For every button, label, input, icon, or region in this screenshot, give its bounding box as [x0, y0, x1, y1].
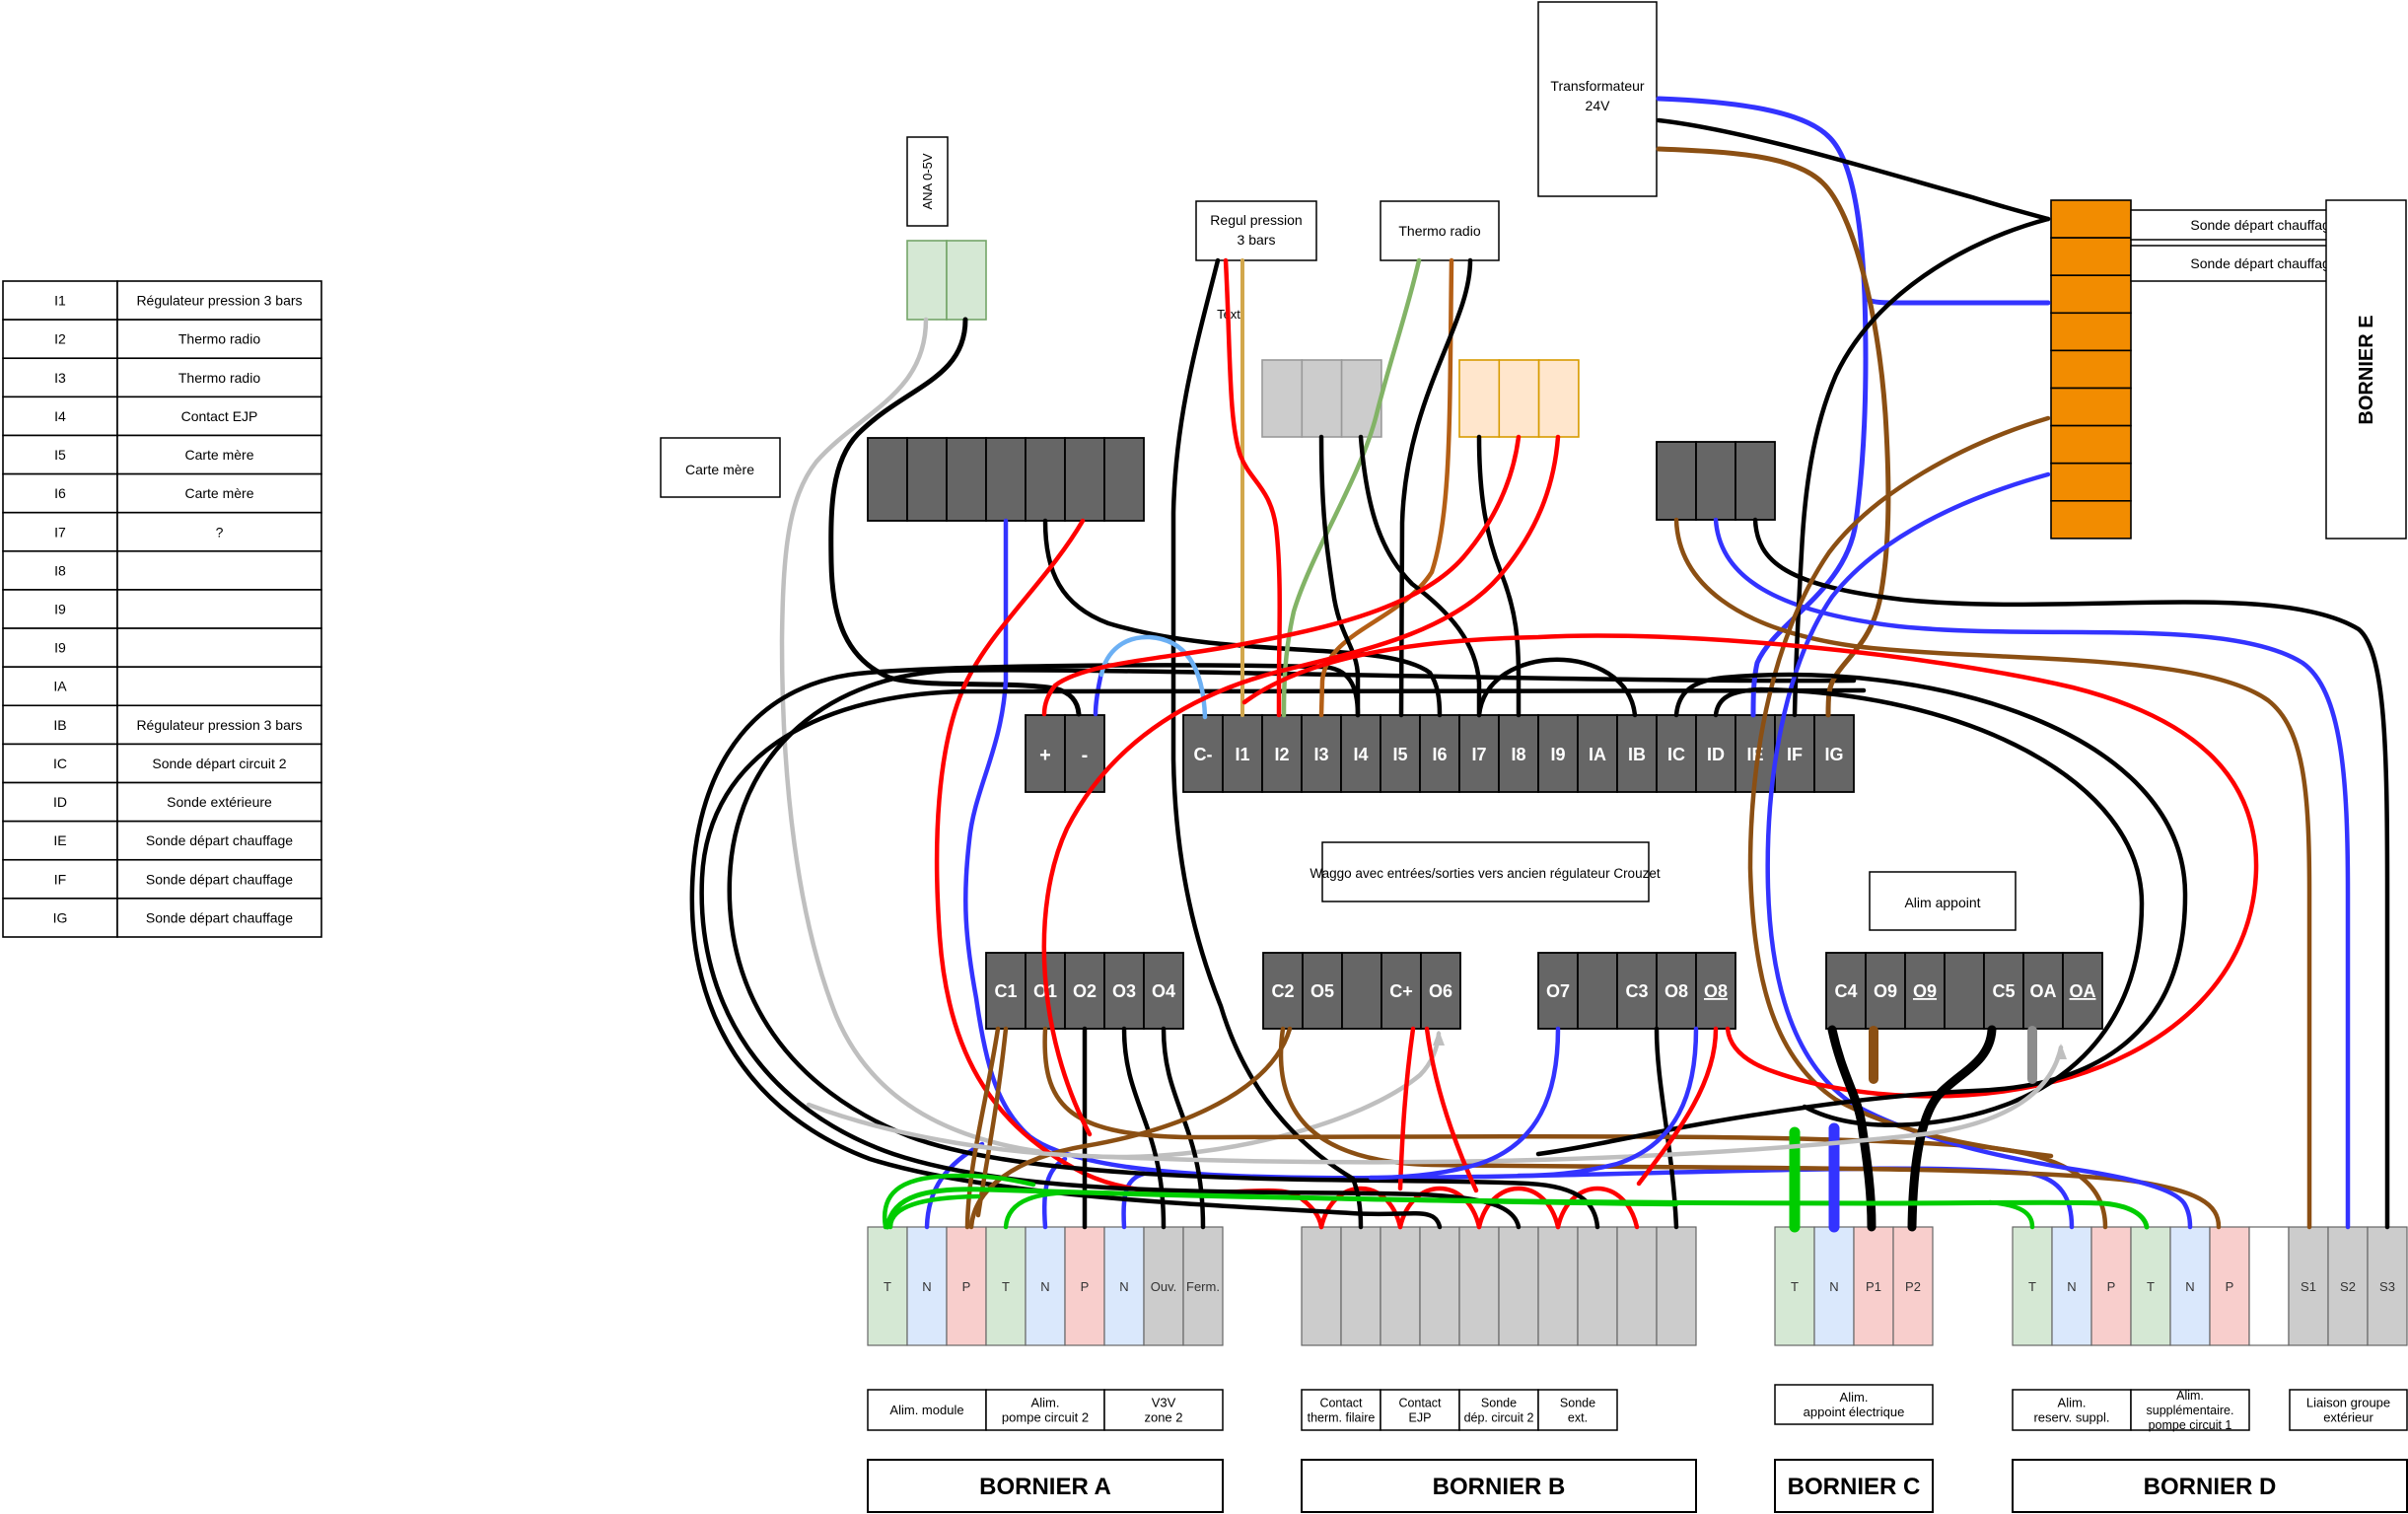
svg-text:I5: I5 — [54, 447, 66, 463]
wire blue hook to minus — [1096, 673, 1101, 714]
svg-text:IA: IA — [53, 679, 67, 694]
connector carte-mere 7-cell dark — [868, 438, 1144, 521]
wire black big arc ID right — [1716, 689, 2142, 1125]
svg-text:T: T — [2147, 1279, 2155, 1294]
svg-text:Sonde départ chauffage: Sonde départ chauffage — [146, 909, 293, 925]
svg-text:Alim.: Alim. — [1031, 1396, 1060, 1410]
svg-text:3 bars: 3 bars — [1238, 232, 1276, 248]
svg-text:BORNIER C: BORNIER C — [1788, 1474, 1921, 1500]
svg-text:Sonde départ chauffage: Sonde départ chauffage — [146, 832, 293, 848]
wire goldenrod regul to I1 — [1240, 260, 1244, 715]
label Alim module — [868, 1390, 986, 1430]
wire blue trafo to IE — [1659, 99, 1866, 715]
connector right 3-cell dark — [1657, 442, 1775, 520]
svg-text:zone 2: zone 2 — [1144, 1410, 1182, 1425]
wire red carte-mere sweep to scallops — [937, 521, 1321, 1227]
svg-text:C1: C1 — [994, 981, 1017, 1001]
wire black gray3cell c2 to I4 — [1321, 437, 1358, 715]
wire thick black C5 to P2 — [1912, 1030, 1992, 1227]
wire thick black C4 to P1 — [1832, 1030, 1872, 1227]
svg-text:N: N — [1040, 1279, 1049, 1294]
svg-text:I8: I8 — [1511, 745, 1525, 764]
svg-text:pompe circuit 1: pompe circuit 1 — [2149, 1418, 2232, 1432]
svg-text:O7: O7 — [1546, 981, 1570, 1001]
svg-text:Contact EJP: Contact EJP — [181, 408, 258, 424]
label Alim supplementaire pompe circuit 1 — [2131, 1389, 2249, 1432]
terminal strip Bornier D — [2013, 1227, 2407, 1345]
svg-text:Alim.: Alim. — [2058, 1396, 2087, 1410]
wire red O8 to scallop — [1639, 1029, 1716, 1184]
wire lightblue arc to C- — [1101, 637, 1205, 717]
svg-text:IB: IB — [1628, 745, 1646, 764]
connector outputs C2 O5 C+ O6 — [1263, 953, 1460, 1029]
wire black left arc to B2 — [692, 665, 1440, 1227]
svg-text:S2: S2 — [2340, 1279, 2356, 1294]
svg-text:IA: IA — [1589, 745, 1606, 764]
svg-text:Regul pression: Regul pression — [1210, 212, 1302, 228]
svg-text:Thermo radio: Thermo radio — [178, 370, 260, 386]
wire black ANA to minus — [831, 320, 1079, 714]
svg-text:P: P — [2226, 1279, 2234, 1294]
svg-text:EJP: EJP — [1409, 1411, 1432, 1425]
svg-text:Sonde départ chauffage: Sonde départ chauffage — [2190, 217, 2337, 233]
svg-text:O2: O2 — [1073, 981, 1097, 1001]
wire brown C2 strand to strip A P1 — [971, 1029, 1290, 1227]
wire brown 3cell to S1 — [1676, 520, 2309, 1227]
connector outputs C4 O9 O9 C5 OA OA — [1826, 953, 2102, 1029]
wire brown C1 to strip A P1 — [967, 1029, 998, 1227]
svg-text:IF: IF — [54, 871, 66, 887]
label Sonde depart chauffage 1 — [2131, 210, 2397, 240]
label BORNIER B — [1302, 1460, 1696, 1512]
wire black carte-mere to I6 — [1045, 521, 1440, 715]
connector peach 3-cell — [1459, 360, 1579, 437]
wire black thermo to I5 — [1401, 260, 1470, 715]
svg-text:IG: IG — [1824, 745, 1843, 764]
connector plus-minus block — [1026, 715, 1104, 792]
wire brown orange row6 crossing C4 — [1750, 418, 2051, 1156]
svg-text:Ferm.: Ferm. — [1186, 1279, 1220, 1294]
svg-text:Ouv.: Ouv. — [1151, 1279, 1177, 1294]
svg-text:I9: I9 — [54, 602, 66, 617]
svg-text:I3: I3 — [54, 370, 66, 386]
svg-text:I1: I1 — [54, 293, 66, 309]
wire black trafo to orange row1 — [1659, 120, 2048, 219]
wire black 3cell to S3 — [1755, 520, 2387, 1227]
svg-text:Sonde départ chauffage: Sonde départ chauffage — [146, 871, 293, 887]
svg-text:Alim appoint: Alim appoint — [1904, 895, 1980, 910]
wire blue carte-mere trunk to bornier D N1 — [965, 521, 2072, 1227]
svg-text:reserv. suppl.: reserv. suppl. — [2033, 1410, 2109, 1425]
label BORNIER E — [2326, 200, 2406, 539]
svg-text:OA: OA — [2030, 981, 2057, 1001]
wire ochre thermo to I3 — [1321, 260, 1452, 715]
stub blue bornier C N — [1829, 1128, 1840, 1227]
wire black gray3cell c3 to I7 — [1361, 437, 1479, 715]
svg-text:-: - — [1082, 745, 1089, 766]
terminal strip Bornier A — [868, 1227, 1223, 1345]
transformer 24V box — [1538, 2, 1657, 196]
svg-text:Carte mère: Carte mère — [184, 447, 253, 463]
label Carte mere — [661, 438, 780, 497]
label Regul pression 3 bars — [1196, 201, 1316, 260]
wire red regul to I2 — [1226, 260, 1280, 715]
label Alim reserv suppl — [2013, 1390, 2131, 1430]
svg-text:I2: I2 — [54, 331, 66, 347]
svg-text:Thermo radio: Thermo radio — [178, 331, 260, 347]
svg-text:appoint électrique: appoint électrique — [1804, 1405, 1905, 1419]
svg-text:V3V: V3V — [1152, 1396, 1176, 1410]
svg-text:O9: O9 — [1913, 981, 1937, 1001]
wire blue 3cell to S2 — [1716, 520, 2348, 1227]
wire red peach c2 to plus — [1044, 437, 1519, 714]
wire brown C2 bus to bornier D P2 — [1281, 1029, 2219, 1227]
label Waggo box — [1310, 842, 1660, 901]
svg-text:IF: IF — [1787, 745, 1803, 764]
svg-text:S1: S1 — [2301, 1279, 2316, 1294]
svg-text:C+: C+ — [1389, 981, 1413, 1001]
svg-text:C-: C- — [1194, 745, 1213, 764]
label Sonde depart chauffage 2 — [2131, 246, 2397, 281]
svg-text:I1: I1 — [1235, 745, 1249, 764]
svg-text:ext.: ext. — [1568, 1411, 1588, 1425]
wire red C+ a — [1400, 1029, 1413, 1189]
svg-text:BORNIER E: BORNIER E — [2356, 315, 2377, 424]
svg-text:pompe circuit 2: pompe circuit 2 — [1002, 1410, 1089, 1425]
label BORNIER D — [2013, 1460, 2407, 1512]
svg-text:IG: IG — [53, 909, 68, 925]
svg-text:IE: IE — [53, 832, 66, 848]
wire red scallop B3 — [1479, 1189, 1558, 1227]
svg-text:Régulateur pression 3 bars: Régulateur pression 3 bars — [136, 293, 302, 309]
svg-text:dép. circuit 2: dép. circuit 2 — [1464, 1411, 1534, 1425]
svg-text:OA: OA — [2070, 981, 2096, 1001]
svg-text:I8: I8 — [54, 562, 66, 578]
svg-text:Liaison groupe: Liaison groupe — [2306, 1396, 2390, 1410]
svg-text:I9: I9 — [1550, 745, 1565, 764]
svg-text:Carte mère: Carte mère — [685, 462, 754, 477]
wire green branch D T1 — [1990, 1202, 2032, 1227]
wire blue branch to orange row3 — [1865, 296, 2048, 303]
wire blue O8 down — [1519, 1029, 1696, 1176]
svg-text:N: N — [1119, 1279, 1128, 1294]
svg-text:I2: I2 — [1274, 745, 1289, 764]
label V3V zone 2 — [1104, 1390, 1223, 1430]
wire red C+ b — [1427, 1029, 1476, 1190]
svg-text:Sonde: Sonde — [1560, 1397, 1595, 1410]
svg-text:N: N — [2067, 1279, 2076, 1294]
svg-text:P: P — [1081, 1279, 1090, 1294]
svg-text:Alim.: Alim. — [1840, 1390, 1869, 1405]
wire red scallop B2 — [1400, 1189, 1479, 1227]
svg-text:C2: C2 — [1271, 981, 1294, 1001]
label Thermo radio — [1381, 201, 1499, 260]
svg-text:IC: IC — [53, 756, 67, 771]
stub green bornier C T — [1790, 1132, 1801, 1227]
wire blue branch strip A N3 — [1124, 1174, 1144, 1227]
wire gray long to OA arrow — [809, 1047, 2061, 1162]
svg-text:O3: O3 — [1112, 981, 1136, 1001]
wire black O3 to Ouv — [1124, 1029, 1164, 1227]
svg-text:Alim. module: Alim. module — [889, 1403, 963, 1417]
wire black C3 to B black cell — [1657, 1029, 1676, 1227]
svg-text:+: + — [1039, 745, 1051, 766]
arrowhead gray at OA — [2055, 1044, 2067, 1059]
wire black left arc to B5 — [702, 690, 1864, 1227]
wire red scallop B1 — [1321, 1189, 1400, 1227]
label Alim appoint — [1870, 872, 2016, 930]
svg-text:I4: I4 — [1353, 745, 1368, 764]
svg-text:O8: O8 — [1704, 981, 1728, 1001]
svg-text:N: N — [1829, 1279, 1838, 1294]
svg-text:ANA 0-5V: ANA 0-5V — [920, 153, 935, 209]
svg-text:Carte mère: Carte mère — [184, 485, 253, 501]
svg-text:C3: C3 — [1625, 981, 1648, 1001]
svg-text:P1: P1 — [1866, 1279, 1881, 1294]
connector outputs C1 O1-O4 — [986, 953, 1183, 1029]
svg-text:P2: P2 — [1905, 1279, 1921, 1294]
svg-text:extérieur: extérieur — [2323, 1410, 2373, 1425]
wire black peach c1 to I8 — [1479, 437, 1519, 715]
label Sonde dep circuit 2 — [1459, 1390, 1538, 1430]
svg-text:BORNIER A: BORNIER A — [979, 1474, 1111, 1500]
wire green curl left1 — [885, 1176, 1033, 1227]
svg-text:I5: I5 — [1392, 745, 1407, 764]
svg-text:I7: I7 — [54, 524, 66, 540]
legend table inputs I1-IG — [3, 281, 321, 937]
svg-text:ID: ID — [1707, 745, 1725, 764]
wire blue branch strip A N2 — [1044, 1159, 1065, 1227]
wire sage green thermo to I2 — [1284, 260, 1419, 715]
wire black orange row1 to IF — [1795, 219, 2048, 715]
wire red loop right to O8 — [1244, 635, 2256, 1096]
wire green curl left2 — [890, 1196, 978, 1227]
svg-text:P: P — [962, 1279, 971, 1294]
svg-text:supplémentaire.: supplémentaire. — [2147, 1404, 2234, 1417]
svg-text:I6: I6 — [54, 485, 66, 501]
svg-text:I3: I3 — [1313, 745, 1328, 764]
svg-text:N: N — [2185, 1279, 2194, 1294]
svg-text:T: T — [1791, 1279, 1799, 1294]
wire black O2 to P2 — [1083, 1029, 1088, 1227]
svg-text:C4: C4 — [1834, 981, 1857, 1001]
wire black O4 to Ferm — [1164, 1029, 1203, 1227]
svg-text:O9: O9 — [1874, 981, 1897, 1001]
stub brown under O9 — [1869, 1031, 1878, 1079]
svg-text:T: T — [2028, 1279, 2036, 1294]
svg-text:Sonde départ circuit 2: Sonde départ circuit 2 — [152, 756, 286, 771]
svg-text:Contact: Contact — [1398, 1397, 1442, 1410]
svg-text:I9: I9 — [54, 640, 66, 656]
wire blue O7 down — [1371, 1029, 1558, 1178]
svg-text:therm. filaire: therm. filaire — [1308, 1411, 1376, 1425]
label Contact EJP — [1381, 1390, 1459, 1430]
wire brown O1 bus to bornier D P1 — [1045, 1029, 2105, 1227]
svg-text:T: T — [884, 1279, 891, 1294]
connector ANA green 2-cell — [907, 241, 986, 320]
svg-text:Alim.: Alim. — [2176, 1389, 2204, 1403]
wire red peach c3 left — [1044, 437, 1558, 1134]
wire black big arc IC right — [1538, 675, 2185, 1154]
wire blue branch strip A N1 — [927, 1144, 982, 1227]
svg-text:O8: O8 — [1664, 981, 1688, 1001]
terminal strip Bornier B — [1302, 1227, 1696, 1345]
svg-text:Sonde: Sonde — [1481, 1397, 1517, 1410]
svg-text:Waggo avec entrées/sorties ver: Waggo avec entrées/sorties vers ancien r… — [1310, 866, 1660, 881]
connector Waggo input row C- I1..IG — [1183, 715, 1854, 792]
svg-text:I4: I4 — [54, 408, 66, 424]
svg-text:O5: O5 — [1310, 981, 1334, 1001]
wire blue orange row8 crossing C4 to D N2 — [1768, 474, 2190, 1227]
svg-text:ID: ID — [53, 794, 67, 810]
svg-text:IB: IB — [53, 717, 66, 733]
label Contact therm filaire — [1302, 1390, 1381, 1430]
svg-text:O4: O4 — [1152, 981, 1175, 1001]
wire green bus2 — [1006, 1192, 1676, 1227]
svg-text:I6: I6 — [1432, 745, 1447, 764]
svg-text:?: ? — [216, 524, 224, 540]
svg-text:Thermo radio: Thermo radio — [1398, 223, 1480, 239]
svg-text:Contact: Contact — [1319, 1397, 1363, 1410]
svg-text:IC: IC — [1667, 745, 1685, 764]
svg-text:O6: O6 — [1429, 981, 1452, 1001]
svg-text:P: P — [2107, 1279, 2116, 1294]
arrowhead gray at O6 — [1433, 1030, 1445, 1045]
svg-text:T: T — [1002, 1279, 1010, 1294]
label Text — [1217, 307, 1240, 322]
label Alim appoint electrique — [1775, 1385, 1933, 1424]
terminal strip Bornier C — [1775, 1227, 1933, 1345]
svg-text:Transformateur: Transformateur — [1550, 78, 1645, 94]
wire brown C1b parallel — [978, 1029, 1006, 1215]
wire black horizontal arc to B7 — [730, 670, 1854, 1227]
connector outputs O7 C3 O8 O8 — [1538, 953, 1735, 1029]
wire red scallop B4 — [1558, 1189, 1637, 1227]
connector Bornier E orange 9-cell — [2051, 200, 2131, 539]
svg-text:BORNIER D: BORNIER D — [2144, 1474, 2277, 1500]
svg-text:S3: S3 — [2379, 1279, 2395, 1294]
wire black regul vertical to B1 — [1173, 260, 1361, 1227]
wire green bus A T1 to D — [887, 1190, 2147, 1227]
label Alim pompe circuit 2 — [986, 1390, 1104, 1430]
svg-text:N: N — [922, 1279, 931, 1294]
label BORNIER C — [1775, 1460, 1933, 1512]
svg-text:Sonde départ chauffage: Sonde départ chauffage — [2190, 255, 2337, 271]
svg-text:I7: I7 — [1471, 745, 1486, 764]
stub gray under OA — [2027, 1031, 2037, 1079]
svg-text:Régulateur pression 3 bars: Régulateur pression 3 bars — [136, 717, 302, 733]
wire black hump I7 to IB — [1479, 660, 1635, 715]
svg-text:BORNIER B: BORNIER B — [1433, 1474, 1566, 1500]
svg-text:C5: C5 — [1992, 981, 2015, 1001]
label ANA 0-5V — [907, 137, 948, 226]
svg-text:Sonde extérieure: Sonde extérieure — [167, 794, 272, 810]
wire gray ANA to O6 arrow — [782, 320, 1439, 1157]
connector gray 3-cell — [1262, 360, 1381, 437]
svg-text:24V: 24V — [1586, 98, 1611, 113]
label Liaison groupe exterieur — [2290, 1390, 2407, 1430]
label Sonde ext — [1538, 1390, 1617, 1430]
wire brown trafo to IG — [1659, 149, 1888, 715]
label BORNIER A — [868, 1460, 1223, 1512]
